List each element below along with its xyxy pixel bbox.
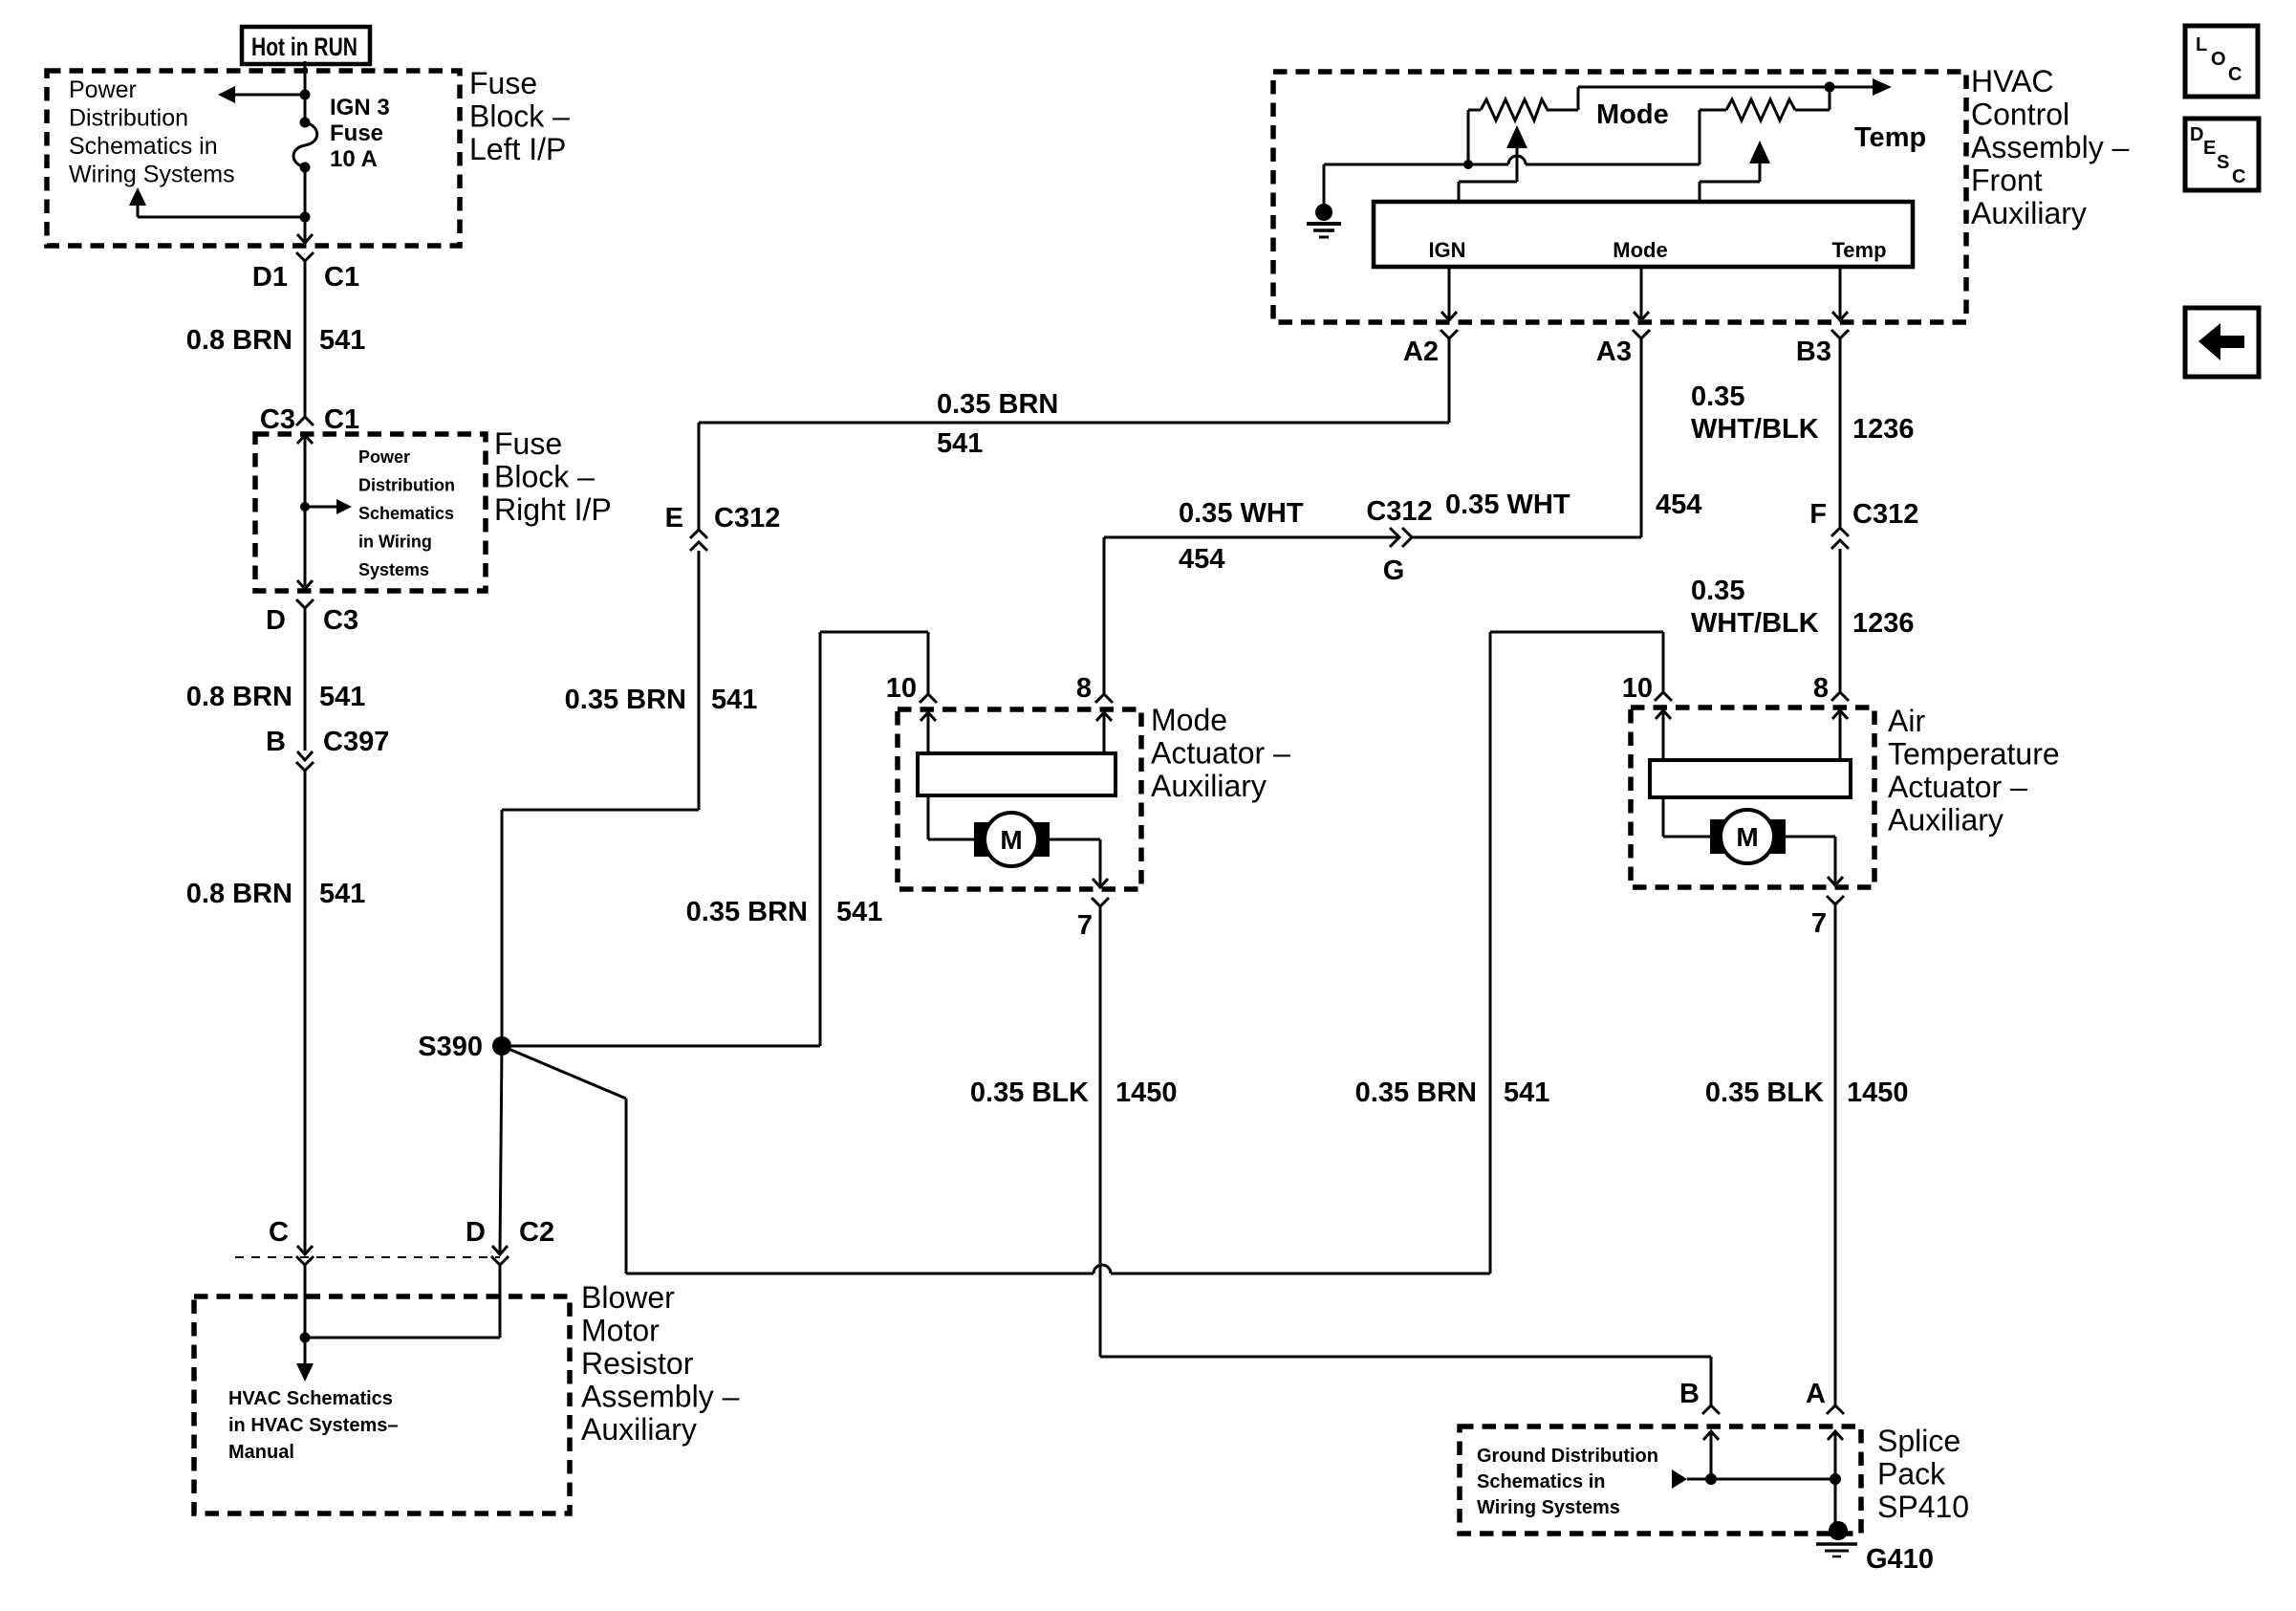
svg-text:IGN 3: IGN 3 [330,95,390,120]
svg-text:M: M [1736,822,1758,852]
wire label 454 (left of G) [1179,544,1224,575]
reference box LOC [2185,26,2258,97]
splice S390 [492,1036,511,1056]
wire S390 right to mode actuator pin 10 [502,632,928,1046]
svg-text:7: 7 [1077,910,1093,941]
svg-text:Splice: Splice [1877,1424,1960,1458]
svg-text:C: C [2228,64,2242,85]
connector air temp actuator pin 8 [1831,692,1849,760]
connector mode actuator pin 8 [1095,694,1113,753]
wire branch to up-arrow (power distribution) [129,187,305,217]
connector pin B3 [1831,330,1849,528]
potentiometer Temp (resistor) [1700,87,1830,164]
label IGN 3 Fuse 10 A [330,95,390,172]
wire internal ground bus [1324,156,1700,164]
label B3 [1796,337,1831,367]
svg-text:0.35 WHT: 0.35 WHT [1179,498,1304,529]
svg-text:0.35 BRN: 0.35 BRN [1355,1078,1477,1108]
inline connector C312 pin F [1831,528,1849,692]
wire label 0.35 BRN 541 (air-10 riser) [1355,1078,1550,1108]
wire label 0.8 BRN 541 (seg 1) [186,325,366,356]
inline connector C312 pin E [690,530,707,810]
svg-text:Mode: Mode [1151,703,1227,737]
svg-text:Auxiliary: Auxiliary [1971,196,2087,230]
wire to HVAC schematics arrow (down) [296,1338,314,1382]
svg-text:541: 541 [319,325,365,356]
label 8 (mode) [1076,673,1092,704]
svg-text:Blower: Blower [581,1280,675,1315]
connector C2 pin C (blower resistor) [296,1246,314,1338]
svg-text:Fuse: Fuse [494,426,562,461]
label IGN [1428,238,1465,262]
svg-text:0.35 BLK: 0.35 BLK [970,1078,1089,1108]
svg-text:D: D [266,605,286,636]
svg-text:M: M [1000,825,1022,855]
label A (splice) [1806,1379,1826,1409]
svg-text:C312: C312 [714,503,780,533]
label Air Temperature Actuator - Auxiliary [1888,704,2060,838]
svg-text:0.35: 0.35 [1691,381,1744,412]
svg-text:B: B [1679,1379,1700,1409]
svg-text:0.35 BLK: 0.35 BLK [1705,1078,1824,1108]
svg-text:7: 7 [1811,908,1827,939]
wire mode pin 7 to splice pack B [1100,1357,1711,1405]
svg-text:C312: C312 [1852,499,1918,530]
svg-text:WHT/BLK: WHT/BLK [1691,414,1819,445]
svg-text:10: 10 [1622,673,1653,704]
connector strip IGN/Mode/Temp [1374,202,1913,267]
svg-text:in HVAC Systems–: in HVAC Systems– [228,1415,398,1436]
wire A3 to G C312 [1412,536,1641,539]
potentiometer Mode (resistor) [1468,87,1578,164]
svg-text:D: D [2190,124,2203,145]
svg-text:C1: C1 [324,404,359,435]
resistor bar (air temp actuator) [1650,760,1851,797]
svg-text:Auxiliary: Auxiliary [1151,769,1267,803]
svg-text:O: O [2211,49,2226,70]
wire label 0.35 WHT (left of G) [1179,498,1304,529]
svg-text:C2: C2 [519,1217,554,1248]
connector air temp actuator pin 7 [1827,877,1844,1405]
svg-text:0.8 BRN: 0.8 BRN [186,325,292,356]
svg-text:A: A [1806,1379,1826,1409]
label B (C397) [266,727,286,757]
label C1 (fuse block right) [324,404,359,435]
wiper arrow Temp [1700,141,1770,202]
label A2 [1403,337,1439,367]
svg-text:G410: G410 [1866,1544,1934,1575]
label E [665,503,683,533]
inline connector C397 pin B [296,751,314,1253]
wire label 0.35 BLK 1450 (air pin 7) [1705,1078,1909,1108]
label Fuse Block - Left I/P [469,66,570,166]
text Ground Distribution Schematics in Wiring Systems [1477,1446,1658,1518]
label C (blower) [269,1217,289,1248]
wire label 0.8 BRN 541 (seg 3) [186,879,366,909]
resistor bar (mode actuator) [918,753,1116,795]
svg-text:S390: S390 [418,1032,483,1062]
svg-text:Hot in RUN: Hot in RUN [251,33,357,61]
svg-text:Assembly –: Assembly – [1971,130,2130,164]
label 7 (air temp) [1811,908,1827,939]
svg-text:D: D [466,1217,486,1248]
node junction below fuse [300,212,311,223]
connector splice pack pin A [1827,1405,1844,1479]
svg-text:A3: A3 [1596,337,1632,367]
dashed box: Splice Pack SP410 / ground distribution [1460,1426,1861,1534]
svg-text:C312: C312 [1366,496,1432,527]
svg-text:C: C [269,1217,289,1248]
wire S390 diagonal to BRN bus [502,1046,626,1274]
label C3 (connector) [323,605,358,636]
svg-text:0.8 BRN: 0.8 BRN [186,682,292,712]
dashed box: Fuse Block - Left I/P [47,71,460,246]
wire exits right fuse block, arrow down [297,580,313,589]
node junction top bus / temp pot [1825,82,1835,93]
label C312 (F) [1852,499,1918,530]
ground G410 [1816,1521,1857,1557]
svg-text:Manual: Manual [228,1442,294,1463]
svg-text:10 A: 10 A [330,146,378,172]
svg-text:F: F [1809,499,1827,530]
connector pin A2 [1440,330,1458,423]
svg-text:Temp: Temp [1831,238,1886,262]
label C312 (G) [1366,496,1432,527]
wire label 0.35 BLK 1450 (mode pin 7) [970,1078,1178,1108]
node junction at top of fuse [300,90,311,100]
label A3 [1596,337,1632,367]
dashed box: HVAC Control Assembly - Front Auxiliary [1273,72,1966,322]
label C312 (E) [714,503,780,533]
power feed box "Hot in RUN" [242,27,370,64]
svg-text:541: 541 [711,685,757,715]
wiper arrow Mode [1459,125,1527,202]
svg-text:B3: B3 [1796,337,1831,367]
node splice bus / pin A [1830,1473,1841,1485]
svg-text:B: B [266,727,286,757]
svg-text:454: 454 [1656,490,1701,520]
svg-text:L: L [2196,34,2207,55]
svg-text:541: 541 [836,897,882,927]
wire BRN bus to air temp actuator pin 10 [626,632,1663,1274]
svg-text:Schematics: Schematics [358,504,454,523]
dashed box: Blower Motor Resistor Assembly - Auxiliary [194,1296,570,1513]
svg-text:Right I/P: Right I/P [494,492,612,527]
wire label 0.35 WHT 454 (right of G) [1445,490,1701,520]
svg-text:Air: Air [1888,704,1925,738]
connector mode actuator pin 10 [920,694,937,753]
svg-text:0.35 BRN: 0.35 BRN [937,389,1058,420]
svg-text:Schematics in: Schematics in [1477,1471,1606,1492]
svg-text:454: 454 [1179,544,1224,575]
svg-text:E: E [665,503,683,533]
wire top bus with arrow [1578,78,1892,96]
svg-text:1450: 1450 [1116,1078,1178,1108]
svg-text:Wiring Systems: Wiring Systems [69,162,235,188]
text Power Distribution Schematics in Wiring Systems (left fuse block) [69,76,235,188]
label 10 (mode) [886,673,917,704]
node junction inside right fuse block [300,502,310,512]
wire A2 to E C312 (horizontal) [699,423,1449,530]
svg-text:Temperature: Temperature [1888,737,2060,772]
label Blower Motor Resistor Assembly - Auxiliary [581,1280,740,1447]
label B (splice) [1679,1379,1700,1409]
svg-text:Wiring Systems: Wiring Systems [1477,1497,1620,1518]
svg-text:Power: Power [69,76,137,103]
wire D leg joins C leg inside blower box [305,1337,500,1339]
svg-text:Left I/P: Left I/P [469,132,566,166]
svg-text:541: 541 [319,682,365,712]
text Power Distribution Schematics in Wiring Systems (right fuse block) [358,447,455,579]
reference box back-arrow [2185,308,2259,377]
label Mode (potentiometer) [1596,99,1669,130]
wire label 0.35 WHT/BLK 1236 (upper) [1691,381,1915,445]
label G [1383,555,1405,586]
svg-text:541: 541 [1504,1078,1549,1108]
label 7 (mode) [1077,910,1093,941]
connector air temp actuator pin 10 [1655,692,1672,760]
svg-text:Auxiliary: Auxiliary [1888,803,2004,838]
label Mode Actuator - Auxiliary [1151,703,1290,803]
label Fuse Block - Right I/P [494,426,612,527]
node splice bus / pin B [1705,1473,1717,1485]
svg-text:Motor: Motor [581,1314,660,1348]
svg-text:C3: C3 [260,404,295,435]
dashed box: Air Temperature Actuator - Auxiliary [1631,708,1874,887]
node junction mode-pot to ground bus [1463,160,1473,169]
label HVAC Control Assembly - Front Auxiliary [1971,64,2130,230]
svg-text:Schematics in: Schematics in [69,133,218,160]
connector C1-C3 (into right fuse block) [296,417,314,586]
wire Hot in RUN to fuse [304,61,307,122]
svg-text:Assembly –: Assembly – [581,1380,740,1414]
pin IGN drop [1441,267,1457,320]
wire arrow to power distribution text (right block) [305,499,352,514]
svg-text:Distribution: Distribution [358,476,455,495]
svg-text:Actuator –: Actuator – [1888,770,2027,804]
svg-text:Systems: Systems [358,560,429,579]
wire label 0.35 BRN (A2 horizontal) [937,389,1058,420]
connector pin A3 [1633,330,1650,537]
svg-text:IGN: IGN [1428,238,1465,262]
label D (C2) [466,1217,486,1248]
wire label 541 (A2 horizontal) [937,428,983,459]
motor M (mode actuator) [928,795,1100,885]
svg-text:Actuator –: Actuator – [1151,736,1290,771]
svg-text:Fuse: Fuse [469,66,537,100]
svg-text:Front: Front [1971,163,2043,198]
splice bus with arrow [1672,1469,1835,1489]
svg-text:1450: 1450 [1847,1078,1909,1108]
svg-text:in Wiring: in Wiring [358,533,432,552]
svg-text:Mode: Mode [1613,238,1667,262]
svg-text:WHT/BLK: WHT/BLK [1691,608,1819,639]
svg-text:HVAC: HVAC [1971,64,2054,98]
pin Mode drop [1634,267,1649,320]
connector C2 pin D (blower resistor) [491,1246,509,1338]
svg-text:541: 541 [937,428,983,459]
label Splice Pack SP410 [1877,1424,1969,1524]
dashed box: Mode Actuator - Auxiliary [898,709,1141,889]
svg-text:HVAC Schematics: HVAC Schematics [228,1388,393,1409]
svg-text:541: 541 [319,879,365,909]
svg-text:Distribution: Distribution [69,105,188,132]
pin Temp drop [1832,267,1848,320]
svg-text:E: E [2203,138,2216,159]
label C1 (top) [324,262,359,293]
wire fuse down to junction [304,167,307,217]
wire label 0.35 BRN 541 (mode-10 riser) [686,897,883,927]
svg-text:D1: D1 [252,262,288,293]
wire label 0.35 BRN 541 (E riser) [565,685,758,715]
connector plane C2 (thin dashed) [235,1256,500,1258]
label C3 [260,404,295,435]
label D1 [252,262,288,293]
svg-text:Pack: Pack [1877,1457,1946,1491]
label C397 [323,727,389,757]
fuse IGN 3 10A (wavy symbol) [293,118,317,173]
svg-text:8: 8 [1813,673,1829,704]
reference box DESC [2185,119,2259,190]
svg-text:Temp: Temp [1854,122,1926,153]
svg-text:C1: C1 [324,262,359,293]
wire label 0.35 WHT/BLK 1236 (lower) [1691,576,1915,639]
svg-text:S: S [2217,152,2229,173]
svg-text:0.35 BRN: 0.35 BRN [565,685,686,715]
svg-text:Block –: Block – [494,460,595,494]
svg-text:10: 10 [886,673,917,704]
connector mode actuator pin 7 [1092,879,1109,1357]
svg-text:C: C [2232,166,2245,187]
label F [1809,499,1827,530]
svg-text:0.35: 0.35 [1691,576,1744,606]
dashed box: Fuse Block - Right I/P [255,434,486,591]
svg-text:SP410: SP410 [1877,1490,1969,1524]
svg-text:Power: Power [358,447,410,467]
text HVAC Schematics in HVAC Systems - Manual [228,1388,398,1463]
svg-text:Ground Distribution: Ground Distribution [1477,1446,1658,1467]
wire arrow to power distribution (left) [218,86,305,103]
connector C3 pin D (right fuse block exit) [296,599,314,751]
label Temp (strip) [1831,238,1886,262]
ground symbol (HVAC control) [1307,164,1341,237]
svg-text:Resistor: Resistor [581,1346,694,1381]
connector splice pack pin B [1702,1405,1720,1479]
label C2 [519,1217,554,1248]
svg-text:0.35 BRN: 0.35 BRN [686,897,808,927]
label G410 [1866,1544,1934,1575]
node junction inside blower box [300,1333,311,1343]
svg-text:0.8 BRN: 0.8 BRN [186,879,292,909]
label S390 [418,1032,483,1062]
wire splice bus to ground [1834,1479,1837,1526]
label D (C3) [266,605,286,636]
svg-text:Fuse: Fuse [330,120,383,146]
svg-text:1236: 1236 [1852,414,1915,445]
wire E riser to S390 [502,810,699,1046]
wire fuse output to connector C1-D1 [304,217,307,242]
svg-text:Control: Control [1971,98,2069,132]
wire S390 down to blower D (C2) [500,1046,502,1253]
wire label 0.8 BRN 541 (seg 2) [186,682,366,712]
svg-text:C397: C397 [323,727,389,757]
label Mode (strip) [1613,238,1667,262]
svg-text:A2: A2 [1403,337,1439,367]
svg-text:G: G [1383,555,1405,586]
svg-text:Mode: Mode [1596,99,1669,130]
svg-text:0.35 WHT: 0.35 WHT [1445,490,1570,520]
svg-text:Auxiliary: Auxiliary [581,1412,697,1447]
connector C1 pin D1 (fuse block exit) [296,234,314,417]
svg-text:C3: C3 [323,605,358,636]
label 10 (air temp) [1622,673,1653,704]
svg-text:1236: 1236 [1852,608,1915,639]
label Temp (potentiometer) [1854,122,1926,153]
motor M (air temp actuator) [1663,797,1835,883]
svg-text:8: 8 [1076,673,1092,704]
svg-text:Block –: Block – [469,99,570,134]
inline connector C312 pin G [1104,528,1412,694]
label 8 (air temp) [1813,673,1829,704]
